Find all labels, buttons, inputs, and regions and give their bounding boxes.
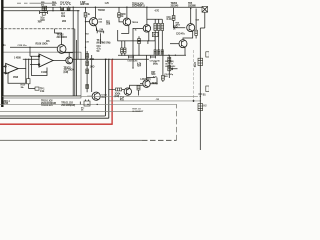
node dot TR105 out (156, 83, 157, 84)
resistor bank a (154, 23, 157, 30)
svg-text:1-8V(1.6V): 1-8V(1.6V) (140, 79, 150, 81)
node dot frame x88 (87, 104, 88, 105)
svg-text:R1O6 1OOk: R1O6 1OOk (36, 43, 49, 45)
wire v x146.5 (146, 55, 148, 80)
transistor TR5 (179, 40, 187, 48)
capacitor C55 on bus A (61, 7, 64, 10)
tick on frame line (192, 100, 194, 102)
transistor TR104 (92, 92, 100, 100)
wire resistor mid low lead (162, 55, 164, 82)
node dot on bus A x68.6 (68, 7, 69, 8)
svg-text:4.7G: 4.7G (155, 9, 160, 12)
svg-text:C1O3: C1O3 (41, 72, 47, 74)
node dot bus x168.9 (168, 55, 169, 56)
svg-text:TR2O: TR2O (152, 83, 158, 85)
potentiometer body lower (168, 66, 171, 71)
wire op1 feedback (8, 69, 26, 84)
node dot rail y101 (200, 100, 201, 101)
svg-text:1 4S58: 1 4S58 (14, 56, 22, 59)
wire bus B top (4, 10, 80, 12)
wire x91.7 (91, 55, 93, 92)
wire TR103 collector up (68, 52, 70, 57)
wire TR102 emitter to bus (64, 52, 73, 54)
resistor chain x87 lead (86, 51, 88, 92)
terminal box right edge lower (206, 86, 209, 92)
resistor R32 hatch (198, 106, 203, 108)
wire TP-2 stem (96, 28, 100, 44)
svg-text:-7W: -7W (156, 99, 160, 101)
node dot bus x133 (132, 55, 133, 56)
svg-text:C2O 47u: C2O 47u (176, 33, 185, 36)
svg-text:56O: 56O (151, 74, 155, 76)
wire R14 lead (138, 90, 140, 96)
wire vertical long bus x74.8 (74, 29, 76, 96)
wire op1 aux vertical (28, 59, 30, 79)
wire bus A top (4, 6, 203, 8)
node dot bus x175.4 (175, 55, 176, 56)
stub frame x80 (79, 102, 81, 105)
node dot on bus B x44.5 (44, 10, 45, 11)
node dot bus x139 (138, 55, 139, 56)
tick B+ (198, 93, 202, 95)
wire TP-1 lead (29, 84, 35, 89)
svg-text:45S8: 45S8 (13, 76, 19, 79)
svg-text:5O: 5O (97, 51, 100, 53)
wire vertical long bus x78 (77, 11, 79, 60)
svg-text:ALIGNMENT: ALIGNMENT (132, 110, 144, 113)
resistor R19 body (138, 39, 141, 44)
emitter resistor b (124, 48, 126, 53)
transistor TR203 (90, 18, 98, 26)
wire TR102 base (10, 46, 57, 48)
node dot rail y96 (200, 96, 201, 97)
wire op2 feedback (32, 56, 48, 75)
capacitor C17 ticks (151, 56, 156, 59)
wire vertical long bus x73.2 (72, 7, 74, 96)
resistor bank b (157, 23, 160, 30)
resistor lower c (161, 50, 163, 55)
section border right dashed riser (176, 104, 178, 140)
frame line y96.3 (2, 95, 198, 97)
small part bottom mid box (84, 101, 90, 106)
node dot bus B x78 (77, 10, 78, 11)
node dot frame x97 (97, 104, 98, 105)
op-amp IC101b (30, 54, 53, 67)
node dot riser (29, 47, 30, 48)
wire TR205 emitter drop (147, 41, 149, 44)
node dot mid x73 (73, 59, 74, 60)
main mid wire (23, 58, 149, 60)
resistor R22 body (172, 16, 175, 21)
capacitor C56 second body (67, 7, 70, 10)
node dot on bus A x60.3 (60, 7, 61, 8)
resistor chain body 2 (86, 61, 89, 66)
component box small (27, 79, 30, 84)
vertical drop black pair right (0, 59, 109, 118)
potentiometer wiper (171, 68, 178, 70)
section box preamp (2, 52, 81, 98)
node dot x133 low (132, 67, 133, 68)
section border bottom solid part (0, 139, 142, 141)
small part bottom mid pins (86, 100, 89, 102)
wire op1 out (18, 59, 26, 68)
node dot bus x121.8 (121, 55, 122, 56)
capacitor C16 ticks (129, 56, 134, 59)
node dot TR206 top (190, 8, 191, 9)
wire R13 to TR106 base (122, 89, 125, 91)
node dot TR203 top (95, 7, 96, 8)
node dot aux (28, 59, 29, 60)
resistor R14 body (137, 86, 140, 91)
svg-text:C1O1 1Ou: C1O1 1Ou (18, 45, 28, 47)
svg-text:O.O1: O.O1 (167, 19, 173, 21)
resistor R22 leads (174, 8, 186, 28)
wire TR105 top (147, 78, 158, 84)
resistor R18 on x85.5 (85, 7, 87, 59)
svg-text:1OO: 1OO (90, 66, 95, 68)
svg-text:C1S: C1S (90, 59, 95, 61)
wire resistor bank c lead (161, 31, 163, 56)
node dot bus x124.8 (124, 55, 125, 56)
resistor lower a (154, 50, 156, 55)
svg-text:(GR): (GR) (64, 72, 69, 74)
transistor TR204 (123, 18, 131, 26)
wire TR102 collector up (55, 29, 62, 45)
transistor TR106 (124, 88, 131, 95)
frame line y104.4 (0, 103, 177, 105)
red trace (0, 60, 112, 125)
capacitor C26 bracket left lead (39, 11, 41, 14)
transistor TR102 (57, 45, 66, 54)
node dot x85.5 y47 (85, 47, 86, 48)
svg-text:56O: 56O (164, 76, 168, 78)
wire TR203 base (86, 21, 90, 23)
svg-text:(1W): (1W) (115, 96, 120, 98)
wire TR203 emitter (96, 25, 98, 31)
transistor TR103 (66, 57, 73, 64)
wire right rail (199, 28, 201, 150)
wire y40.9 right (133, 37, 155, 41)
wire riser to op2 input (29, 47, 31, 56)
wire emitters bus (118, 54, 186, 56)
wire TR203 collector (94, 7, 96, 18)
node dot base rail (85, 21, 86, 22)
resistor R20 body (118, 13, 121, 17)
resistor above TR104 (86, 85, 89, 89)
wire resistor bank b lead (158, 31, 160, 56)
wire TR206 collector (190, 9, 192, 24)
wire resistor bank a lead (154, 31, 156, 56)
wire TR204 emitter down (121, 25, 129, 33)
wire R19 leads (138, 36, 140, 55)
svg-text:TR2O3: TR2O3 (98, 10, 106, 12)
svg-text:(MUTING SW): (MUTING SW) (97, 42, 111, 44)
resistor R31 body (198, 58, 203, 65)
svg-text:(R2S): (R2S) (153, 64, 158, 66)
vertical drop black pair left (0, 59, 105, 116)
resistor mid low body (162, 76, 165, 81)
wire lower-left bus C (0, 28, 75, 30)
wire TR105 base (140, 83, 143, 85)
wire to R13 (109, 89, 116, 91)
frame line y111.5 (0, 111, 141, 113)
wire TR5 base (170, 43, 179, 45)
wire top link TR205 to resistor row (147, 19, 162, 23)
node dot on bus B x53 (52, 10, 53, 11)
capacitor C26 bracket right lead (46, 11, 48, 14)
svg-text:C16 1Ou/16: C16 1Ou/16 (127, 60, 138, 62)
wire TR205 base (133, 27, 143, 29)
node dot op1 out (25, 59, 26, 60)
node dot TR204 top (126, 7, 127, 8)
frame line y100.8 (108, 100, 200, 102)
wire vertical long bus x76.4 (75, 40, 77, 96)
terminal box right edge upper (206, 52, 209, 57)
wire TR205 collector (146, 7, 148, 25)
connector TP-2 ticks (97, 31, 104, 33)
capacitor C26 bracket bar (40, 11, 48, 13)
dash underline top label (60, 3, 72, 5)
svg-text:AMP SW: AMP SW (80, 3, 90, 6)
wire right drop (200, 12, 205, 28)
wire mid link row (118, 28, 133, 68)
resistor R32 body (198, 104, 203, 111)
svg-text:TR2O4: TR2O4 (132, 21, 139, 24)
capacitor C26 body (42, 12, 45, 15)
svg-text:1 2V: 1 2V (105, 3, 110, 5)
resistor R20 lead (119, 7, 123, 22)
node dot TR205 top (146, 7, 147, 8)
node dot mid x112.6 (112, 59, 113, 60)
wire TR204 collector (126, 7, 128, 18)
op-amp IC101a (3, 63, 19, 73)
page left border bar (1, 0, 3, 107)
transistor TR205 (143, 25, 150, 32)
connector top right corner (202, 7, 208, 13)
resistor R55 body (42, 6, 47, 10)
wire tap vertical x53 (52, 7, 54, 11)
resistor bank c (161, 23, 164, 30)
transistor TR206 (187, 24, 195, 32)
resistor R29 column (195, 9, 197, 39)
node dot bus A x73.2 (73, 7, 74, 8)
resistor chain body 1 (86, 54, 89, 59)
test point TP-1 box (35, 87, 39, 90)
node dot y40.9 (147, 40, 148, 41)
resistor chain body 3 (86, 69, 89, 74)
dashed top net (17, 2, 57, 4)
wire TR104 base (87, 95, 92, 97)
wire pot chain (168, 55, 170, 78)
wire TR106 collector up (130, 85, 143, 88)
resistor R13 body (116, 88, 122, 91)
wire op2 out (53, 60, 66, 62)
wire TR206 emitter (183, 31, 193, 40)
emitter resistor pair leads (122, 41, 125, 55)
node dot mid x105.4 (105, 59, 106, 60)
wire tap vertical x44.5 (44, 7, 46, 11)
transistor TR105 (143, 80, 150, 87)
resistor lower b (158, 50, 160, 55)
section box inner bottom (2, 95, 81, 97)
box R23 (152, 32, 158, 36)
svg-text:2SC134S(GR): 2SC134S(GR) (61, 104, 75, 107)
resistor R31 hatch (198, 61, 203, 63)
section border bottom dashed part (142, 139, 177, 141)
emitter resistor a (121, 48, 123, 53)
node dot mid x106 (105, 59, 106, 60)
node dot mid x108.9 (108, 59, 109, 60)
section divider dash-dot (192, 50, 194, 100)
wire TR205 emitter (148, 32, 150, 41)
wire TR5 emitter (184, 47, 186, 55)
potentiometer body upper (168, 57, 171, 62)
